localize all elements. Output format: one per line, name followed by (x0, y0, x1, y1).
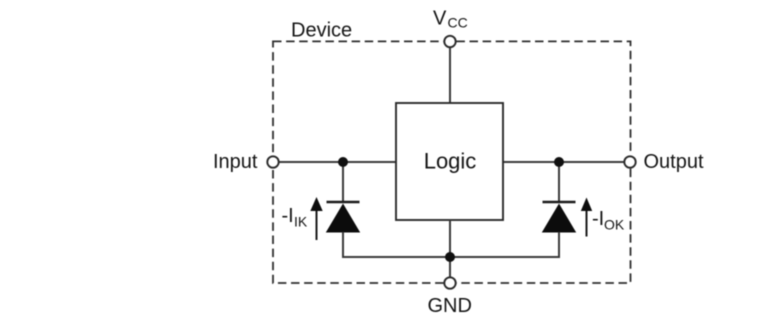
node: output junction (554, 157, 564, 167)
svg-text:GND: GND (428, 295, 472, 317)
svg-text:OK: OK (604, 217, 625, 233)
node: input junction (338, 157, 348, 167)
wire: output node down to clamp diode D2 (558, 162, 560, 202)
GND terminal (open circle) (444, 277, 455, 288)
svg-text:CC: CC (448, 15, 468, 31)
wire: Logic right to Output terminal (503, 161, 624, 163)
diode D1 (input clamp, cathode bar) (327, 201, 360, 204)
Input terminal (open circle) (267, 156, 278, 167)
svg-text:Output: Output (644, 151, 704, 173)
label: -IIK (282, 205, 308, 230)
svg-text:V: V (433, 8, 447, 30)
label: Vcc (433, 8, 468, 31)
svg-text:-I: -I (592, 208, 604, 230)
svg-text:Logic: Logic (424, 149, 477, 174)
wire: Vcc terminal to Logic top (449, 47, 451, 103)
Vcc terminal (open circle) (444, 36, 455, 47)
current arrow -IIK (upward) (310, 197, 322, 240)
label: -IOK (592, 208, 625, 233)
diode D2 (output clamp, cathode bar) (543, 201, 576, 204)
wire: diode D2 anode to ground rail (558, 232, 560, 258)
diode D1 (input clamp, triangle) (326, 204, 360, 233)
wire: Input terminal to Logic left (279, 161, 396, 163)
wire: ground rail (343, 256, 559, 258)
Output terminal (open circle) (624, 156, 635, 167)
node: ground junction (445, 252, 455, 262)
current arrow -IOK (upward) (581, 198, 592, 237)
svg-text:IK: IK (294, 214, 308, 230)
wire: diode D1 anode to ground rail (342, 232, 344, 258)
device boundary (dashed box) (273, 41, 631, 283)
wire: ground rail to GND terminal (449, 257, 451, 278)
svg-text:Device: Device (291, 20, 352, 42)
diode D2 (output clamp, triangle) (542, 204, 576, 233)
svg-text:-I: -I (282, 205, 294, 227)
wire: input node down to clamp diode D1 (342, 162, 344, 202)
svg-text:Input: Input (213, 151, 258, 173)
wire: Logic bottom to ground rail (449, 220, 451, 257)
logic block U1 (396, 103, 503, 220)
